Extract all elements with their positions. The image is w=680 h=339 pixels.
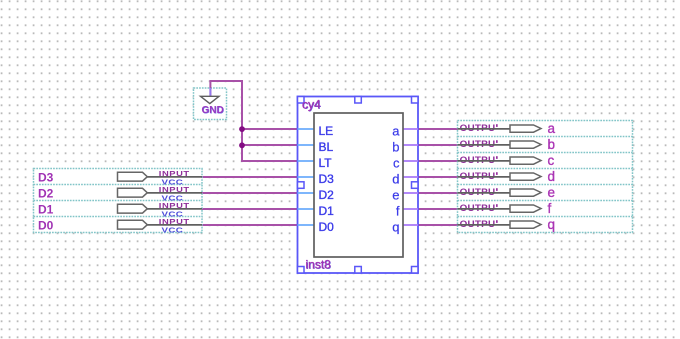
pin stub D3 [298,176,315,178]
pin name BL [319,140,334,154]
svg-text:f: f [396,204,400,219]
pin stub d [403,176,418,178]
svg-text:b: b [392,140,399,155]
pin stub g [403,224,418,226]
input pin D3 label [38,171,54,185]
pin stub c [403,160,418,162]
pin name f [396,204,400,219]
svg-text:VCC: VCC [162,226,184,235]
input net D0 wire [202,224,298,226]
pin stub e [403,192,418,194]
svg-text:GND: GND [202,105,224,116]
output pins selection block [458,121,633,233]
svg-text:D1: D1 [38,203,54,217]
component U1 cy4 selection rect [298,97,419,274]
svg-text:LT: LT [319,156,333,170]
svg-text:D0: D0 [38,219,54,233]
pin name g [392,220,399,235]
svg-text:LE: LE [319,124,334,138]
output pin b label [548,137,556,152]
svg-text:D1: D1 [319,204,335,218]
output pin a label [548,121,556,136]
input pin D0 label [38,219,54,233]
svg-text:c: c [548,153,555,168]
pin name c [393,156,400,171]
input pins selection block [34,169,203,233]
pin stub b [403,144,418,146]
svg-text:D0: D0 [319,220,335,234]
input net D3 wire [202,176,298,178]
ground symbol GND selection box [194,88,227,120]
output pin a symbol [458,123,542,133]
input pin D1 label [38,203,54,217]
output net c wire [418,160,458,162]
output pin g symbol [458,219,542,229]
pin stub D1 [298,208,315,210]
wire branch to LE [241,128,298,130]
input pin D3 symbol [118,169,203,186]
output pin d symbol [458,171,542,181]
output net b wire [418,144,458,146]
output pin e label [548,185,556,200]
component U1 name label cy4 [302,98,322,112]
svg-text:D3: D3 [38,171,54,185]
pin stub BL [298,144,315,146]
svg-text:c: c [393,156,400,171]
output pin c label [548,153,555,168]
pin name D3 [319,172,335,186]
svg-text:BL: BL [319,140,334,154]
svg-text:cy4: cy4 [302,98,321,112]
svg-text:D3: D3 [319,172,335,186]
output pin g label [548,217,556,232]
input pin D1 symbol [118,201,203,218]
svg-text:inst8: inst8 [306,258,332,272]
svg-text:D2: D2 [319,188,335,202]
pin name D2 [319,188,335,202]
wire branch to BL [241,144,298,146]
svg-text:e: e [548,185,556,200]
component U1 body [314,113,403,257]
pin name e [392,188,399,203]
pin name a [392,124,400,139]
pin stub LT [298,160,315,162]
pin name D1 [319,204,335,218]
junction dot at BL branch [239,142,245,148]
component U1 instance label inst8 [306,258,332,272]
output net a wire [418,128,458,130]
pin name D0 [319,220,335,234]
component U1 selection handles [298,97,419,274]
output pin f symbol [458,203,542,213]
svg-text:D2: D2 [38,187,54,201]
svg-text:a: a [392,124,400,139]
ground symbol GND triangle [201,96,220,103]
output pin b symbol [458,139,542,149]
svg-text:q: q [392,220,399,235]
svg-text:d: d [548,169,556,184]
input pin D2 symbol [118,185,203,202]
output pin d label [548,169,556,184]
output pin f label [548,201,552,216]
output net g wire [418,224,458,226]
svg-text:b: b [548,137,556,152]
pin name d [392,172,399,187]
svg-text:q: q [548,217,556,232]
ground symbol GND label [202,105,225,116]
pin name LE [319,124,334,138]
pin name LT [319,156,333,170]
pin stub D2 [298,192,315,194]
wire from GND up-right elbow [210,81,243,97]
output net e wire [418,192,458,194]
svg-text:a: a [548,121,556,136]
output pin e symbol [458,187,542,197]
input net D1 wire [202,208,298,210]
pin stub a [403,128,418,130]
input net D2 wire [202,192,298,194]
pin stub f [403,208,418,210]
pin stub LE [298,128,315,130]
input pin D0 symbol [118,217,203,234]
svg-text:f: f [548,201,552,216]
wire vertical trunk [241,80,243,162]
output net f wire [418,208,458,210]
svg-text:d: d [392,172,399,187]
ground symbol GND lead stub [209,88,211,97]
junction dot at LE branch [239,126,245,132]
svg-text:e: e [392,188,399,203]
pin name b [392,140,399,155]
pin stub D0 [298,224,315,226]
output pin c symbol [458,155,542,165]
wire branch to LT [241,160,298,162]
output net d wire [418,176,458,178]
input pin D2 label [38,187,54,201]
